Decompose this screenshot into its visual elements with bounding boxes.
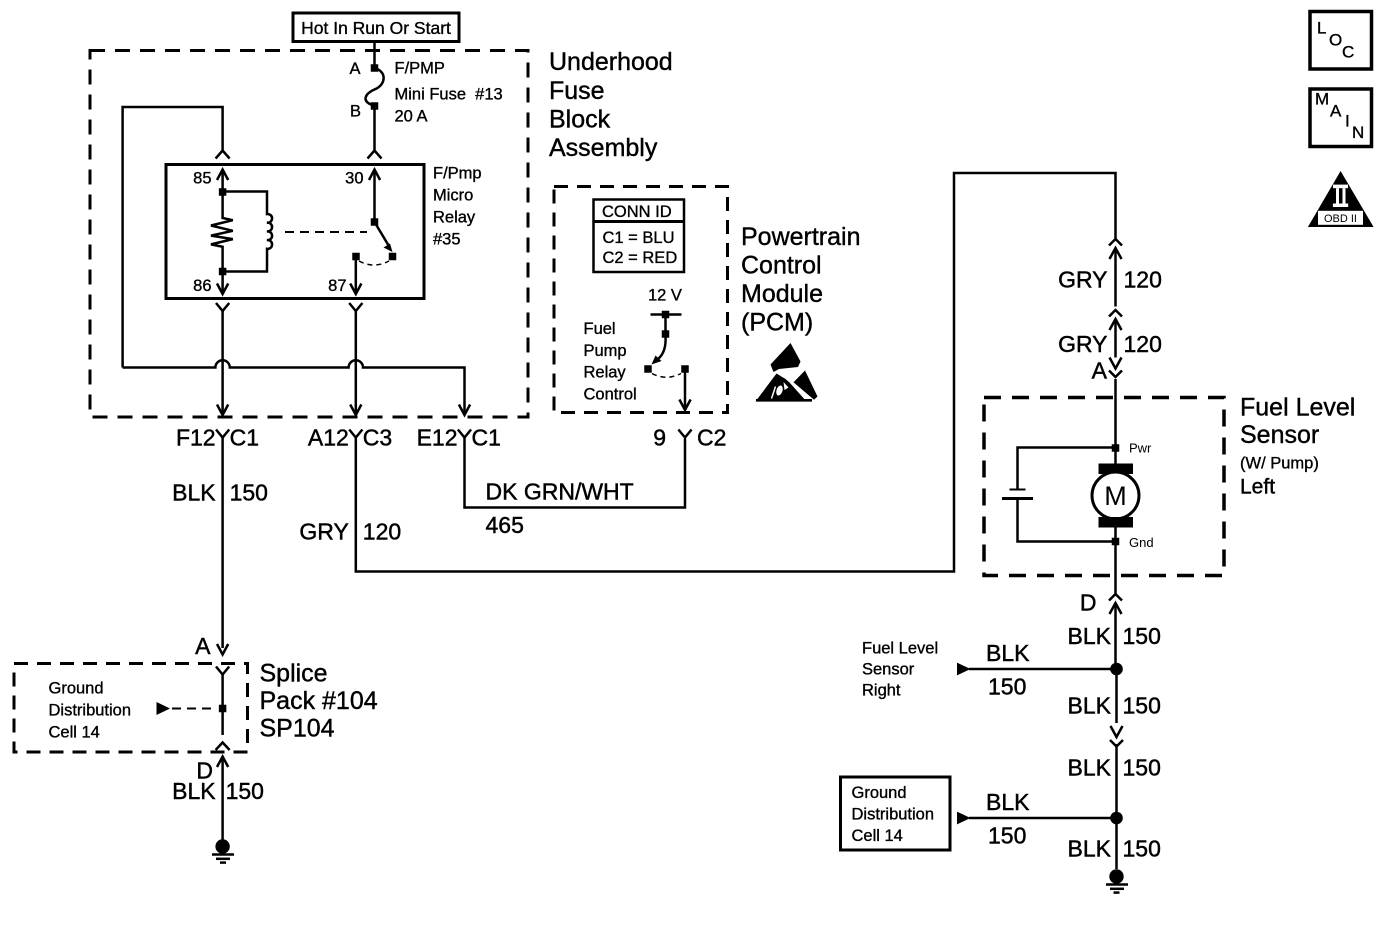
connector Y symbol at E12 C1 (458, 430, 471, 438)
arrowhead at F12 into connector C1 (217, 405, 228, 416)
svg-text:GRY: GRY (1058, 267, 1107, 293)
svg-text:BLK: BLK (1068, 623, 1112, 649)
svg-text:Distribution: Distribution (49, 702, 132, 720)
arrow up below splice box (node D) (217, 757, 228, 841)
label Powertrain Control Module (PCM) (741, 223, 861, 337)
svg-text:Cell 14: Cell 14 (852, 827, 903, 845)
Underhood Fuse Block Assembly dashed box (90, 51, 528, 418)
svg-text:M: M (1315, 90, 1329, 109)
svg-text:Ground: Ground (852, 784, 907, 802)
connector Y symbol at F12 C1 (216, 430, 229, 438)
wire Gnd down to connector D (1114, 542, 1117, 595)
svg-text:E12: E12 (417, 425, 458, 451)
svg-text:F/PMP: F/PMP (395, 60, 445, 78)
svg-text:Control: Control (584, 386, 637, 404)
svg-text:Pwr: Pwr (1129, 441, 1152, 456)
svg-text:Relay: Relay (584, 364, 627, 382)
dashed arc between contacts (359, 261, 389, 265)
svg-text:A: A (1330, 102, 1342, 121)
connector caret at splice bottom (216, 743, 230, 751)
label Fuel Level Sensor Right (862, 640, 938, 700)
driver switch lower-left contact dot (644, 365, 652, 373)
arrowhead at splice node A (217, 644, 228, 655)
branch wire label BLK 150 (986, 640, 1030, 700)
wire from driver to pin 9 with arrowhead (679, 369, 690, 410)
switch contact dot pin 87 (352, 253, 360, 261)
svg-text:30: 30 (345, 170, 363, 188)
label Fuel Level Sensor (W/ Pump) Left (1240, 394, 1355, 499)
svg-text:B: B (350, 103, 361, 121)
arrowhead at A12 into connector C3 (350, 405, 361, 416)
node Pwr dot (1112, 444, 1120, 452)
label Ground Distribution Cell 14 (splice) (49, 680, 132, 742)
PCM dashed box (554, 187, 728, 413)
Ground Distribution Cell 14 box (841, 777, 951, 850)
wire E12 down and right to PCM pin 9 (465, 438, 686, 508)
svg-text:D: D (1080, 590, 1097, 616)
dashed link to splice node (172, 708, 214, 710)
svg-text:Block: Block (549, 106, 611, 134)
svg-text:BLK: BLK (172, 480, 216, 506)
svg-text:Right: Right (862, 682, 901, 700)
LOC reference box (1310, 12, 1372, 70)
connector Y symbol at 9 C2 (678, 430, 691, 438)
wire below junction (1115, 669, 1118, 723)
resistor inside relay (211, 192, 233, 272)
wire pin 87 down to A12 (355, 311, 358, 413)
svg-text:BLK: BLK (1068, 836, 1112, 862)
wire F12 down to splice arrow (221, 438, 224, 649)
inline connector (double caret + arrow) on GRY feed lower (1109, 310, 1122, 358)
branch wire label BLK 150 (986, 789, 1030, 849)
Fuel Level Sensor dashed box (984, 398, 1224, 576)
12 V rail line (651, 313, 682, 316)
svg-text:O: O (1329, 31, 1342, 50)
inline connector (double caret + arrow) on GRY feed upper (1109, 239, 1122, 307)
wire pin 85 bottom run with hops over 86 and 87 wires (123, 360, 465, 413)
motor M (fuel pump) (1092, 448, 1139, 542)
svg-text:Fuel: Fuel (584, 320, 616, 338)
svg-text:87: 87 (328, 277, 346, 295)
branch wire to Fuel Level Sensor Right (957, 663, 1111, 676)
connector Y below relay pin 86 (216, 303, 229, 311)
svg-text:Left: Left (1240, 476, 1275, 499)
wire from Hot box to fuse terminal A (373, 42, 376, 68)
sender (battery style) symbol left branch (1002, 448, 1112, 542)
svg-text:Micro: Micro (433, 187, 473, 205)
svg-text:9: 9 (653, 425, 666, 451)
driver switch upper contact dot (662, 330, 670, 338)
connector caret above relay pin 85 (216, 151, 230, 159)
terminal F12 connector C1 label (176, 425, 259, 451)
wire label BLK 150 (F12) (172, 480, 268, 506)
svg-text:F/Pmp: F/Pmp (433, 165, 482, 183)
svg-text:Fuel Level: Fuel Level (1240, 394, 1355, 422)
wire label GRY 120 (upper right) (1058, 267, 1162, 293)
svg-text:150: 150 (1123, 623, 1161, 649)
MAIN reference box (1310, 89, 1372, 147)
svg-text:Cell 14: Cell 14 (49, 724, 100, 742)
svg-text:150: 150 (1123, 693, 1161, 719)
driver switch stem (664, 315, 667, 335)
svg-text:C: C (1342, 43, 1354, 62)
terminal E12 connector C1 label (417, 425, 501, 451)
svg-text:20 A: 20 A (395, 108, 428, 126)
switch blade arrow (375, 222, 393, 252)
svg-text:Powertrain: Powertrain (741, 223, 861, 251)
svg-text:OBD II: OBD II (1324, 213, 1357, 225)
svg-text:Hot In Run Or Start: Hot In Run Or Start (301, 18, 451, 38)
terminal A12 connector C3 label (308, 425, 392, 451)
svg-text:Relay: Relay (433, 209, 476, 227)
fuse terminal B dot (371, 102, 379, 110)
label Underhood Fuse Block Assembly (549, 48, 673, 162)
svg-text:12 V: 12 V (648, 287, 682, 305)
svg-text:M: M (1104, 481, 1127, 511)
svg-text:150: 150 (988, 674, 1026, 700)
dashed actuation link from coil to switch (285, 231, 367, 233)
svg-text:L: L (1317, 19, 1326, 38)
fuse value label F/PMP Mini Fuse 13 20 A (395, 60, 503, 126)
svg-text:A: A (349, 60, 360, 78)
pin 87 arrow down inside relay (350, 257, 361, 295)
svg-text:85: 85 (193, 170, 211, 188)
ground G104 (left) (212, 839, 234, 862)
svg-text:Distribution: Distribution (852, 806, 935, 824)
svg-text:GRY: GRY (1058, 331, 1107, 357)
svg-text:Pack #104: Pack #104 (260, 687, 378, 715)
fuse element squiggle (366, 68, 384, 105)
wire label BLK 150 (bottom) (1068, 836, 1161, 862)
wire fuse B down to relay pin 30 connector (373, 106, 376, 150)
wire label BLK 150 (left ground drop) (172, 778, 264, 804)
svg-text:BLK: BLK (986, 789, 1030, 815)
fuse F/PMP Mini Fuse 13 terminal A dot (371, 64, 379, 72)
splice node dot SP104 (219, 705, 227, 713)
CONN ID table (594, 200, 685, 273)
svg-text:A: A (1092, 358, 1108, 384)
connector Y symbol at A12 C3 (349, 430, 362, 438)
Splice Pack dashed box (14, 664, 248, 753)
branch wire to Ground Distribution Cell 14 (957, 812, 1111, 825)
connector Y below relay pin 87 (349, 303, 362, 311)
svg-text:Fuel Level: Fuel Level (862, 640, 938, 658)
junction dot ground distribution tap (1110, 812, 1123, 825)
svg-text:C1 = BLU: C1 = BLU (603, 229, 675, 247)
label Splice Pack 104 SP104 (260, 660, 378, 743)
node Gnd dot (1112, 538, 1120, 546)
svg-text:#35: #35 (433, 231, 461, 249)
svg-text:C3: C3 (363, 425, 392, 451)
arrowhead at E12 into connector C1 (459, 405, 470, 416)
wire label DK GRN/WHT 465 (486, 479, 634, 539)
svg-text:(PCM): (PCM) (741, 309, 813, 337)
connector caret above relay pin 30 (368, 151, 382, 159)
wire through splice (221, 675, 224, 736)
label F/Pmp Micro Relay 35 (433, 165, 482, 249)
svg-text:Assembly: Assembly (549, 134, 658, 162)
svg-text:Pump: Pump (584, 342, 627, 360)
wire label GRY 120 (lower right) (1058, 331, 1162, 357)
svg-text:N: N (1352, 123, 1364, 142)
svg-text:150: 150 (1123, 755, 1161, 781)
pin 30 arrow up inside relay (369, 170, 380, 223)
svg-text:Gnd: Gnd (1129, 535, 1154, 550)
svg-text:Ground: Ground (49, 680, 104, 698)
svg-text:C2 = RED: C2 = RED (603, 249, 678, 267)
relay coil (parallel with resistor) (223, 192, 272, 272)
ground G (right) (1106, 869, 1128, 892)
inline connector (arrow down + double caret) on BLK drop (1110, 726, 1123, 818)
svg-text:150: 150 (988, 823, 1026, 849)
wire label BLK 150 (lower) (1068, 755, 1161, 781)
svg-text:A12: A12 (308, 425, 349, 451)
svg-text:Control: Control (741, 252, 822, 280)
svg-text:150: 150 (230, 480, 268, 506)
svg-text:Module: Module (741, 280, 823, 308)
connector Y inside splice box (216, 667, 229, 675)
node dot on 12 V rail (662, 311, 670, 319)
svg-text:Sensor: Sensor (862, 661, 915, 679)
svg-text:C2: C2 (697, 425, 726, 451)
junction dot fuel level sensor right tap (1110, 663, 1123, 676)
wire label BLK 150 (below D) (1068, 623, 1161, 649)
svg-text:86: 86 (193, 277, 211, 295)
svg-text:GRY: GRY (299, 519, 348, 545)
svg-text:F12: F12 (176, 425, 216, 451)
switch contact dot (normally open) (389, 253, 397, 261)
svg-text:(W/ Pump): (W/ Pump) (1240, 455, 1319, 473)
svg-text:Splice: Splice (260, 660, 328, 688)
node dot pin 85 branch (219, 188, 227, 196)
svg-text:I: I (1345, 112, 1350, 131)
driver switch output contact dot (681, 365, 689, 373)
wire label BLK 150 (mid) (1068, 693, 1161, 719)
svg-text:Sensor: Sensor (1240, 421, 1319, 449)
wire label GRY 120 (A12) (299, 519, 401, 545)
pin 85 arrow up inside relay (217, 170, 228, 193)
switch pivot dot pin 30 (371, 218, 379, 226)
connector D below sensor (double caret + arrow up) (1109, 594, 1122, 664)
svg-text:C1: C1 (230, 425, 259, 451)
node dot pin 86 branch (219, 268, 227, 276)
OBD II symbol (1308, 171, 1374, 227)
svg-text:BLK: BLK (172, 778, 216, 804)
wire pin 85 feed: top corner to caret (123, 107, 223, 368)
svg-text:465: 465 (486, 512, 524, 538)
svg-text:BLK: BLK (1068, 693, 1112, 719)
svg-text:CONN ID: CONN ID (602, 203, 672, 221)
svg-text:120: 120 (363, 519, 401, 545)
wire A12 down and right to fuel level sensor (356, 173, 1116, 572)
dashed arc between driver contacts (652, 374, 681, 378)
svg-text:120: 120 (1124, 331, 1162, 357)
label Fuel Pump Relay Control (584, 320, 637, 404)
driver switch blade arrow (652, 336, 666, 365)
svg-text:Fuse: Fuse (549, 77, 605, 105)
pin 86 arrow down inside relay (217, 272, 228, 295)
svg-text:BLK: BLK (1068, 755, 1112, 781)
svg-text:DK GRN/WHT: DK GRN/WHT (486, 479, 634, 505)
power source box Hot In Run Or Start (293, 13, 459, 42)
relay box F/Pmp Micro Relay 35 (166, 165, 424, 299)
svg-text:A: A (195, 633, 211, 659)
svg-text:120: 120 (1124, 267, 1162, 293)
svg-text:Mini Fuse #13: Mini Fuse #13 (395, 86, 503, 104)
svg-text:SP104: SP104 (260, 715, 335, 743)
ESD sensitive device symbol (756, 343, 818, 402)
wire pin 86 down to F12 (221, 311, 224, 413)
svg-text:C1: C1 (472, 425, 501, 451)
svg-text:Underhood: Underhood (549, 48, 673, 76)
svg-text:150: 150 (226, 778, 264, 804)
reference arrow to splice (filled triangle) (157, 702, 171, 715)
connector A into fuel level sensor (arrow down + double caret) (1109, 358, 1122, 449)
svg-text:BLK: BLK (986, 640, 1030, 666)
wire to ground (right) (1115, 818, 1118, 869)
terminal 9 connector C2 label (653, 425, 726, 451)
svg-text:150: 150 (1123, 836, 1161, 862)
